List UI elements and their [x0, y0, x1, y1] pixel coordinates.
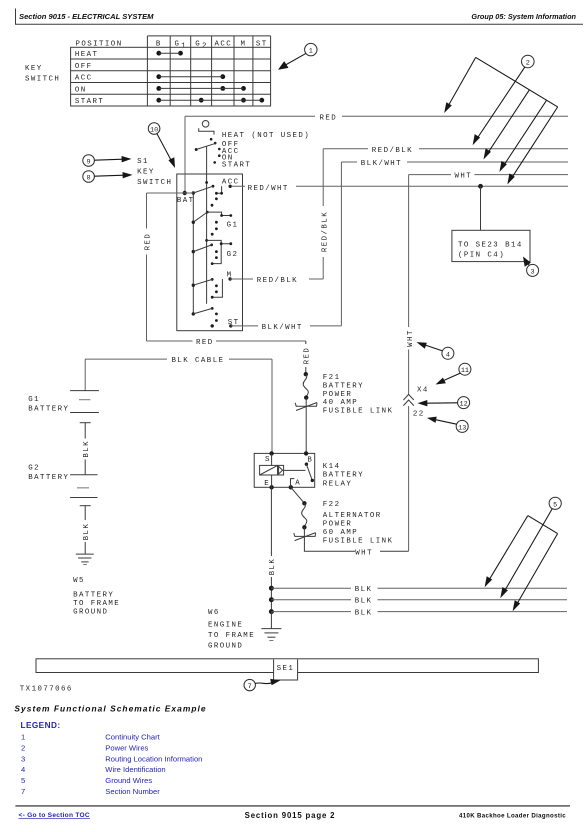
- svg-text:(PIN C4): (PIN C4): [458, 251, 505, 259]
- svg-text:RED/BLK: RED/BLK: [257, 277, 298, 285]
- svg-text:BATTERY: BATTERY: [323, 472, 364, 480]
- svg-text:BATTERY: BATTERY: [28, 474, 69, 482]
- svg-text:E: E: [264, 480, 270, 488]
- svg-text:Section Number: Section Number: [105, 787, 160, 796]
- svg-text:3: 3: [531, 268, 535, 276]
- svg-text:13: 13: [458, 424, 466, 432]
- svg-text:ON: ON: [75, 86, 87, 94]
- svg-text:11: 11: [461, 367, 469, 375]
- svg-text:FUSIBLE LINK: FUSIBLE LINK: [323, 538, 394, 546]
- svg-text:POWER: POWER: [323, 391, 352, 399]
- svg-text:KEY: KEY: [137, 169, 155, 177]
- svg-text:F21: F21: [323, 374, 341, 382]
- svg-text:S: S: [265, 456, 271, 464]
- svg-text:ALTERNATOR: ALTERNATOR: [323, 512, 382, 520]
- svg-text:Power Wires: Power Wires: [105, 743, 148, 752]
- svg-text:OFF: OFF: [75, 63, 93, 71]
- svg-text:2: 2: [202, 43, 208, 51]
- svg-text:8: 8: [87, 175, 91, 183]
- svg-text:9: 9: [87, 159, 91, 167]
- svg-text:X4: X4: [417, 387, 429, 395]
- svg-text:2: 2: [526, 60, 530, 68]
- svg-text:BLK: BLK: [83, 440, 91, 458]
- svg-text:K14: K14: [323, 463, 341, 471]
- svg-text:RED/BLK: RED/BLK: [372, 147, 413, 155]
- svg-text:BLK/WHT: BLK/WHT: [262, 324, 303, 332]
- svg-text:40 AMP: 40 AMP: [323, 399, 358, 407]
- svg-text:Continuity Chart: Continuity Chart: [105, 733, 160, 742]
- svg-text:HEAT (NOT USED): HEAT (NOT USED): [222, 132, 310, 140]
- svg-text:RED: RED: [320, 114, 338, 122]
- svg-text:POWER: POWER: [323, 521, 352, 529]
- svg-text:WHT: WHT: [407, 329, 415, 347]
- svg-text:Group 05: System Information: Group 05: System Information: [471, 12, 576, 21]
- svg-text:60 AMP: 60 AMP: [323, 529, 358, 537]
- svg-text:BLK: BLK: [83, 523, 91, 541]
- svg-text:RED: RED: [145, 233, 153, 251]
- svg-text:GROUND: GROUND: [73, 609, 108, 617]
- svg-text:RED/WHT: RED/WHT: [248, 185, 289, 193]
- svg-text:FUSIBLE LINK: FUSIBLE LINK: [323, 407, 394, 415]
- svg-text:BAT: BAT: [177, 197, 195, 205]
- svg-text:A: A: [295, 479, 301, 487]
- svg-text:5: 5: [21, 776, 25, 785]
- svg-text:HEAT: HEAT: [75, 51, 99, 59]
- svg-text:B: B: [307, 457, 313, 465]
- svg-text:S1: S1: [137, 158, 149, 166]
- svg-text:TX1077066: TX1077066: [20, 686, 73, 694]
- svg-text:WHT: WHT: [455, 173, 473, 181]
- svg-text:GROUND: GROUND: [208, 642, 243, 650]
- svg-text:RED: RED: [196, 339, 214, 347]
- svg-text:SWITCH: SWITCH: [137, 179, 172, 187]
- svg-text:START: START: [222, 162, 251, 170]
- svg-text:SE1: SE1: [277, 665, 295, 673]
- svg-text:2: 2: [21, 743, 25, 752]
- svg-text:BLK/WHT: BLK/WHT: [361, 160, 402, 168]
- svg-text:F22: F22: [323, 501, 341, 509]
- svg-text:ENGINE: ENGINE: [208, 622, 243, 630]
- svg-text:System Functional Schematic Ex: System Functional Schematic Example: [14, 704, 206, 714]
- svg-text:SWITCH: SWITCH: [25, 75, 60, 83]
- svg-text:1: 1: [309, 48, 313, 56]
- svg-text:BLK: BLK: [355, 586, 373, 594]
- svg-text:1: 1: [181, 43, 187, 51]
- svg-text:4: 4: [446, 351, 450, 359]
- svg-text:TO SE23 B14: TO SE23 B14: [458, 241, 523, 249]
- svg-text:<- Go to Section TOC: <- Go to Section TOC: [19, 812, 90, 819]
- svg-text:Section 9015 - ELECTRICAL SYST: Section 9015 - ELECTRICAL SYSTEM: [19, 12, 154, 21]
- svg-text:Section 9015 page 2: Section 9015 page 2: [245, 811, 336, 820]
- svg-text:TO FRAME: TO FRAME: [208, 632, 255, 640]
- svg-text:RED: RED: [304, 347, 312, 365]
- svg-text:WHT: WHT: [355, 549, 373, 557]
- svg-text:BLK: BLK: [269, 558, 277, 576]
- svg-text:ACC: ACC: [75, 75, 93, 83]
- svg-text:BLK CABLE: BLK CABLE: [172, 357, 225, 365]
- svg-text:START: START: [75, 98, 104, 106]
- svg-text:G2: G2: [28, 465, 40, 473]
- svg-text:BATTERY: BATTERY: [323, 383, 364, 391]
- svg-text:LEGEND:: LEGEND:: [21, 721, 61, 730]
- svg-text:3: 3: [21, 754, 25, 763]
- svg-text:Ground Wires: Ground Wires: [105, 776, 152, 785]
- svg-text:BATTERY: BATTERY: [28, 406, 69, 414]
- svg-text:10: 10: [150, 127, 158, 135]
- svg-text:RELAY: RELAY: [323, 480, 352, 488]
- svg-text:TO FRAME: TO FRAME: [73, 600, 120, 608]
- svg-text:Wire Identification: Wire Identification: [105, 765, 165, 774]
- svg-text:7: 7: [248, 683, 252, 691]
- svg-text:22: 22: [413, 411, 425, 419]
- svg-text:Routing Location Information: Routing Location Information: [105, 754, 202, 763]
- svg-text:G1: G1: [28, 396, 40, 404]
- svg-text:W5: W5: [73, 577, 85, 585]
- svg-text:1: 1: [21, 733, 25, 742]
- svg-text:4: 4: [21, 765, 25, 774]
- svg-text:5: 5: [553, 501, 557, 509]
- svg-text:BLK: BLK: [355, 598, 373, 606]
- svg-text:BATTERY: BATTERY: [73, 591, 114, 599]
- svg-text:W6: W6: [208, 609, 220, 617]
- svg-text:7: 7: [21, 787, 25, 796]
- svg-text:12: 12: [460, 401, 468, 409]
- svg-text:410K Backhoe Loader Diagnostic: 410K Backhoe Loader Diagnostic: [459, 812, 566, 819]
- svg-text:G2: G2: [227, 251, 239, 259]
- svg-text:G1: G1: [227, 222, 239, 230]
- svg-text:KEY: KEY: [25, 65, 43, 73]
- svg-text:RED/BLK: RED/BLK: [321, 211, 329, 252]
- svg-text:BLK: BLK: [355, 610, 373, 618]
